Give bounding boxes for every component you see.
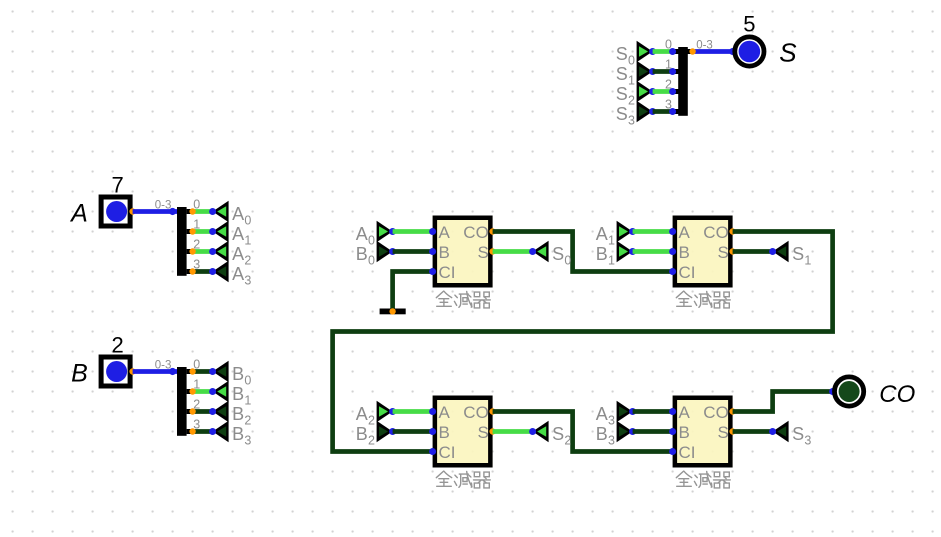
- svg-text:CI: CI: [439, 443, 456, 462]
- constant 0 (borrow-in): [380, 308, 406, 314]
- wire U4.S to tunnel S3: [733, 429, 773, 434]
- svg-text:1: 1: [608, 254, 615, 268]
- svg-text:3: 3: [628, 114, 635, 128]
- svg-text:0: 0: [193, 357, 200, 371]
- svg-text:A: A: [679, 223, 691, 242]
- wire bus pin A to splitter SP1: [133, 209, 178, 214]
- svg-text:A: A: [679, 403, 691, 422]
- splitter SP1 (A bus 0-3): [155, 197, 213, 275]
- svg-text:A: A: [439, 403, 451, 422]
- tunnel S3 (to combiner): [616, 101, 656, 128]
- wire U3.S to tunnel S2: [493, 429, 533, 434]
- svg-text:2: 2: [564, 434, 571, 448]
- tunnel A3 (feed U4.A): [596, 401, 636, 428]
- svg-text:0: 0: [244, 374, 251, 388]
- tunnel A2 (feed U3.A): [356, 401, 396, 428]
- svg-text:1: 1: [244, 394, 251, 408]
- tunnel B1 (feed U2.B): [596, 241, 636, 268]
- tunnel B2 (source): [209, 401, 251, 428]
- svg-text:1: 1: [244, 234, 251, 248]
- svg-text:B: B: [232, 424, 244, 444]
- input pin A (value 7): [101, 197, 136, 226]
- svg-text:0: 0: [628, 54, 635, 68]
- wire U4.CO to pin CO: [733, 392, 833, 412]
- node pin S input: [729, 48, 736, 55]
- svg-text:A: A: [439, 223, 451, 242]
- svg-text:0: 0: [665, 37, 672, 51]
- svg-text:B: B: [232, 384, 244, 404]
- svg-text:0-3: 0-3: [155, 200, 172, 212]
- svg-text:S: S: [616, 104, 628, 124]
- wire U1.S to tunnel S0: [493, 249, 533, 254]
- svg-text:B: B: [71, 360, 88, 388]
- tunnel B3 (source): [209, 421, 251, 448]
- svg-text:3: 3: [804, 434, 811, 448]
- svg-text:CO: CO: [703, 223, 729, 242]
- tunnel S2 (sink): [529, 421, 571, 448]
- svg-text:0-3: 0-3: [155, 360, 172, 372]
- caption 全减器 for U4: [676, 471, 730, 488]
- splitter SP3 (S combiner 0-3): [665, 37, 713, 116]
- svg-text:B: B: [232, 364, 244, 384]
- wire S0 to combiner: [653, 49, 673, 54]
- wire A1 to U2.A: [633, 229, 673, 234]
- svg-text:A: A: [232, 244, 244, 264]
- svg-text:2: 2: [628, 94, 635, 108]
- subcircuit U1 (full subtractor 全减器): [429, 216, 496, 288]
- svg-text:1: 1: [665, 57, 672, 71]
- tunnel A0 (source): [209, 201, 251, 228]
- svg-text:CI: CI: [439, 263, 456, 282]
- svg-text:1: 1: [193, 377, 200, 391]
- svg-text:S: S: [552, 244, 564, 264]
- svg-text:B: B: [679, 423, 690, 442]
- svg-text:3: 3: [608, 434, 615, 448]
- tunnel B0 (source): [209, 361, 251, 388]
- tunnel A1 (feed U2.A): [596, 221, 636, 248]
- tunnel S0 (to combiner): [616, 41, 656, 68]
- tunnel B0 (feed U1.B): [356, 241, 396, 268]
- svg-text:S: S: [616, 84, 628, 104]
- tunnel S1 (sink): [769, 241, 811, 268]
- splitter SP2 (B bus 0-3): [155, 357, 213, 436]
- svg-text:S: S: [477, 423, 488, 442]
- svg-text:2: 2: [111, 333, 123, 358]
- svg-text:2: 2: [244, 414, 251, 428]
- svg-text:B: B: [439, 423, 450, 442]
- tunnel A0 (feed U1.A): [356, 221, 396, 248]
- tunnel B1 (source): [209, 381, 251, 408]
- tunnel A2 (source): [209, 241, 251, 268]
- wire A3 to U4.A: [633, 409, 673, 414]
- svg-text:S: S: [792, 424, 804, 444]
- svg-text:S: S: [792, 244, 804, 264]
- wire S3 to combiner: [653, 109, 673, 114]
- svg-text:CI: CI: [679, 263, 696, 282]
- svg-text:S: S: [616, 44, 628, 64]
- svg-text:S: S: [717, 423, 728, 442]
- svg-text:3: 3: [244, 274, 251, 288]
- wire bus pin B to splitter SP2: [133, 369, 178, 374]
- wire U2.S to tunnel S1: [733, 249, 773, 254]
- svg-text:3: 3: [244, 434, 251, 448]
- tunnel A3 (source): [209, 261, 251, 288]
- svg-text:B: B: [356, 244, 368, 264]
- subcircuit U3 (full subtractor 全减器): [429, 396, 496, 468]
- svg-text:0: 0: [244, 214, 251, 228]
- svg-text:0: 0: [564, 254, 571, 268]
- svg-text:CO: CO: [703, 403, 729, 422]
- svg-text:3: 3: [608, 414, 615, 428]
- output pin S (value 5): [735, 37, 764, 66]
- svg-text:2: 2: [665, 77, 672, 91]
- svg-text:A: A: [596, 224, 608, 244]
- wire A2 to U3.A: [393, 409, 433, 414]
- svg-text:3: 3: [193, 417, 200, 431]
- svg-text:CI: CI: [679, 443, 696, 462]
- svg-text:B: B: [596, 244, 608, 264]
- svg-text:2: 2: [368, 434, 375, 448]
- wire U3.CO to U4.CI: [493, 412, 673, 452]
- input pin B (value 2): [101, 357, 136, 386]
- svg-text:0: 0: [193, 197, 200, 211]
- tunnel B3 (feed U4.B): [596, 421, 636, 448]
- svg-text:0: 0: [368, 254, 375, 268]
- caption 全减器 for U1: [436, 291, 490, 308]
- tunnel S1 (to combiner): [616, 61, 656, 88]
- tunnel S0 (sink): [529, 241, 571, 268]
- tunnel A1 (source): [209, 221, 251, 248]
- svg-text:5: 5: [743, 12, 755, 37]
- svg-text:CO: CO: [463, 223, 489, 242]
- tunnel S2 (to combiner): [616, 81, 656, 108]
- svg-text:S: S: [552, 424, 564, 444]
- tunnel B2 (feed U3.B): [356, 421, 396, 448]
- svg-text:B: B: [356, 424, 368, 444]
- tunnel S3 (sink): [769, 421, 811, 448]
- wire A0 to U1.A: [393, 229, 433, 234]
- svg-text:A: A: [232, 204, 244, 224]
- svg-text:3: 3: [665, 97, 672, 111]
- svg-text:B: B: [596, 424, 608, 444]
- svg-text:A: A: [596, 404, 608, 424]
- wire B0 to U1.B: [393, 249, 433, 254]
- svg-text:0: 0: [368, 234, 375, 248]
- svg-text:2: 2: [244, 254, 251, 268]
- svg-text:B: B: [679, 243, 690, 262]
- wire bus combiner to pin S: [693, 49, 734, 54]
- svg-text:2: 2: [193, 397, 200, 411]
- svg-text:CO: CO: [879, 381, 915, 408]
- svg-text:S: S: [779, 38, 797, 68]
- svg-text:CO: CO: [463, 403, 489, 422]
- subcircuit U4 (full subtractor 全减器): [669, 396, 736, 468]
- wire B3 to U4.B: [633, 429, 673, 434]
- svg-text:S: S: [477, 243, 488, 262]
- svg-text:1: 1: [804, 254, 811, 268]
- wire constant to U1.CI: [393, 272, 433, 312]
- svg-text:2: 2: [193, 237, 200, 251]
- svg-text:0-3: 0-3: [696, 39, 713, 51]
- svg-text:S: S: [717, 243, 728, 262]
- caption 全减器 for U2: [676, 291, 730, 308]
- svg-text:3: 3: [193, 257, 200, 271]
- wire U1.CO to U2.CI: [493, 232, 673, 272]
- svg-text:A: A: [356, 224, 368, 244]
- svg-text:B: B: [439, 243, 450, 262]
- wire U2.CO to U3.CI: [333, 232, 833, 452]
- wire S1 to combiner: [653, 69, 673, 74]
- svg-text:2: 2: [368, 414, 375, 428]
- svg-text:A: A: [232, 224, 244, 244]
- svg-text:B: B: [232, 404, 244, 424]
- svg-text:A: A: [356, 404, 368, 424]
- wire S2 to combiner: [653, 89, 673, 94]
- svg-text:7: 7: [111, 173, 123, 198]
- svg-text:A: A: [69, 200, 88, 228]
- subcircuit U2 (full subtractor 全减器): [669, 216, 736, 288]
- svg-text:1: 1: [193, 217, 200, 231]
- svg-text:S: S: [616, 64, 628, 84]
- caption 全减器 for U3: [436, 471, 490, 488]
- wire B1 to U2.B: [633, 249, 673, 254]
- svg-text:1: 1: [628, 74, 635, 88]
- svg-text:A: A: [232, 264, 244, 284]
- node pin CO input: [829, 388, 836, 395]
- output pin CO (value 0): [835, 377, 864, 406]
- wire B2 to U3.B: [393, 429, 433, 434]
- svg-text:1: 1: [608, 234, 615, 248]
